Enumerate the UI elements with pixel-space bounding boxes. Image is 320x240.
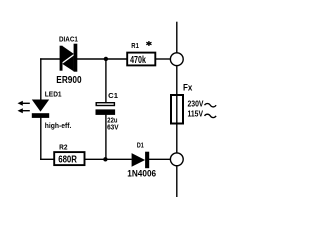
svg-text:D1: D1 <box>137 143 144 150</box>
node A junction dot <box>104 57 108 61</box>
svg-text:ER900: ER900 <box>56 75 82 86</box>
wire C1 to junction B <box>105 115 107 160</box>
wire right rail top stub <box>176 22 178 53</box>
svg-text:470k: 470k <box>130 54 146 66</box>
wire R2 to junction B to D1 <box>85 158 132 160</box>
wire D1 to bottom terminal <box>149 158 171 160</box>
wire R1 to top terminal <box>155 58 171 60</box>
resistor R2 <box>54 152 84 165</box>
svg-text:R2: R2 <box>59 144 67 151</box>
wire left rail upper (corner to LED1) <box>40 58 42 100</box>
diode D1 <box>132 152 150 169</box>
svg-text:high-eff.: high-eff. <box>45 123 72 130</box>
wave glyph for 230V <box>205 103 217 106</box>
wire top-left horizontal from left rail to DIAC1 <box>40 58 60 60</box>
svg-text:22u: 22u <box>107 118 117 125</box>
resistor R1 <box>127 53 155 66</box>
wire bottom rail to R2 <box>40 158 54 160</box>
svg-text:115V: 115V <box>188 109 204 119</box>
wire left rail lower (LED1 to bottom rail) <box>40 118 42 161</box>
wire right rail bottom stub <box>176 166 178 198</box>
svg-text:1N4006: 1N4006 <box>127 168 156 179</box>
wave glyph for 115V <box>205 114 217 117</box>
svg-text:63V: 63V <box>107 125 119 132</box>
svg-text:LED1: LED1 <box>45 91 62 98</box>
fuse Fx <box>171 95 183 124</box>
terminal bottom circle <box>170 153 183 166</box>
svg-text:230V: 230V <box>188 99 204 109</box>
capacitor C1 <box>96 103 116 115</box>
led LED1 <box>18 100 50 118</box>
wire DIAC1 to junction A to R1 <box>77 58 127 60</box>
svg-text:Fx: Fx <box>183 82 192 92</box>
svg-text:R1: R1 <box>131 41 139 50</box>
svg-text:C1: C1 <box>108 93 118 100</box>
svg-text:680R: 680R <box>58 154 77 166</box>
asterisk mark <box>146 41 151 46</box>
svg-text:DIAC1: DIAC1 <box>59 37 78 44</box>
terminal top circle <box>170 53 183 66</box>
wire right rail through fuse Fx <box>176 66 178 154</box>
node B junction dot <box>103 157 107 161</box>
wire middle vertical junction A to C1 <box>105 59 107 103</box>
diac DIAC1 <box>60 44 78 72</box>
